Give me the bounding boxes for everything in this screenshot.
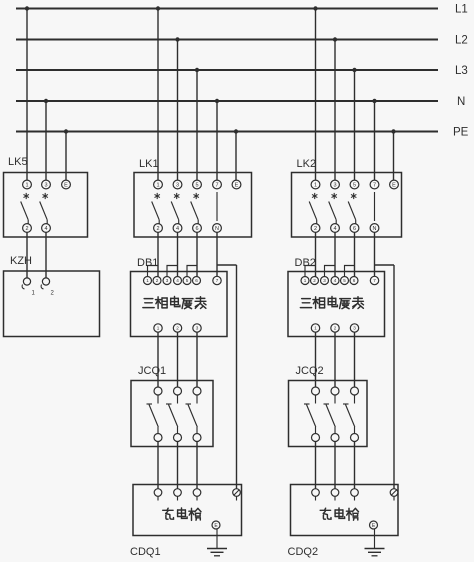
svg-text:7: 7	[216, 278, 219, 283]
svg-text:7: 7	[373, 182, 376, 188]
wire LK5 pin4 to KZH	[45, 232, 47, 278]
svg-text:4: 4	[176, 278, 179, 283]
charging gun CDQ2 label	[288, 546, 319, 558]
breaker LK1 label	[139, 158, 159, 170]
svg-text:N: N	[373, 226, 377, 232]
svg-text:7: 7	[215, 182, 218, 188]
svg-text:5: 5	[186, 278, 189, 283]
junction N/LK5	[44, 99, 48, 103]
wire LK1 pin4 to DB1	[177, 232, 179, 277]
svg-text:3: 3	[44, 182, 47, 188]
wire JCQ2 to CDQ2	[315, 442, 317, 489]
svg-text:6: 6	[353, 226, 356, 232]
wire PE to LK2	[393, 132, 395, 181]
charging gun CDQ1 label	[130, 546, 161, 558]
svg-text:2: 2	[25, 226, 28, 232]
controller KZH	[4, 271, 100, 337]
junction PE/LK2	[391, 129, 395, 133]
wire N to LK5 pin3	[45, 101, 47, 181]
meter DB2	[288, 266, 385, 337]
wire LK2 bypass to CDQ2 PE terminal	[375, 265, 395, 489]
net label L3	[455, 65, 468, 77]
svg-text:L3: L3	[455, 65, 468, 77]
svg-text:KZH: KZH	[10, 255, 32, 267]
breaker LK2 label	[297, 158, 317, 170]
wire LK2 pin2 to DB2	[315, 232, 317, 277]
svg-text:2: 2	[176, 326, 179, 331]
junction L2/LK2	[333, 37, 337, 41]
wire PE to LK5 pinE	[65, 132, 67, 181]
contactor JCQ1 label	[138, 365, 166, 377]
wire LK1 bypass to CDQ1 PE terminal	[217, 265, 237, 489]
svg-text:N: N	[215, 226, 219, 232]
bus PE	[16, 131, 438, 133]
svg-text:4: 4	[44, 226, 47, 232]
svg-text:CDQ1: CDQ1	[130, 546, 161, 558]
junction N/LK1	[215, 99, 219, 103]
svg-text:3: 3	[176, 182, 179, 188]
wire LK5 pin2 to KZH	[26, 232, 28, 278]
wire LK1 pin6 to DB1	[196, 232, 198, 277]
wire PE to LK1	[235, 132, 237, 181]
svg-text:1: 1	[157, 326, 160, 331]
wire JCQ1 to CDQ1	[196, 442, 198, 489]
wire L3 to LK1	[196, 70, 198, 181]
svg-text:E: E	[392, 182, 396, 188]
contactor JCQ1	[131, 381, 213, 447]
svg-text:3: 3	[353, 326, 356, 331]
bus N	[16, 100, 438, 102]
svg-text:E: E	[235, 182, 239, 188]
breaker LK5 label	[8, 156, 28, 168]
svg-text:5: 5	[353, 182, 356, 188]
svg-text:1: 1	[146, 278, 149, 283]
junction L2/LK1	[175, 37, 179, 41]
svg-text:1: 1	[304, 278, 307, 283]
wire L1 to LK5 pin1	[26, 9, 28, 181]
svg-text:N: N	[457, 96, 465, 108]
wire L3 to LK2	[354, 70, 356, 181]
breaker LK1	[134, 173, 252, 238]
svg-text:LK1: LK1	[139, 158, 159, 170]
svg-text:1: 1	[314, 182, 317, 188]
wire LK2 pin6 to DB2	[354, 232, 356, 277]
svg-text:L2: L2	[455, 35, 468, 47]
svg-text:JCQ1: JCQ1	[138, 365, 166, 377]
wire LK2 pin4 to DB2	[334, 232, 336, 277]
meter DB1	[131, 266, 228, 337]
svg-text:2: 2	[334, 326, 337, 331]
junction L1/LK5	[25, 6, 29, 10]
wire DB1 to JCQ1	[177, 332, 179, 387]
junction L1/LK2	[313, 6, 317, 10]
svg-text:5: 5	[195, 182, 198, 188]
wire LK2 pinN to DB2	[374, 232, 376, 277]
svg-text:2: 2	[156, 226, 159, 232]
svg-text:2: 2	[156, 278, 159, 283]
svg-text:4: 4	[176, 226, 179, 232]
contactor JCQ2	[289, 381, 368, 447]
net label N	[457, 96, 465, 108]
junction L3/LK1	[195, 68, 199, 72]
junction L3/LK2	[352, 68, 356, 72]
svg-text:4: 4	[334, 278, 337, 283]
wire JCQ2 to CDQ2	[334, 442, 336, 489]
junction PE/LK1	[234, 129, 238, 133]
svg-text:L1: L1	[455, 4, 468, 16]
svg-text:2: 2	[314, 226, 317, 232]
svg-text:7: 7	[373, 278, 376, 283]
junction PE/LK5	[64, 129, 68, 133]
svg-text:LK5: LK5	[8, 156, 28, 168]
bus L1	[16, 8, 438, 10]
wire DB2 to JCQ2	[315, 332, 317, 387]
wire LK1 pin2 to DB1	[157, 232, 159, 277]
svg-text:1: 1	[25, 182, 28, 188]
wire LK1 pinN to DB1	[216, 232, 218, 277]
wire DB2 to JCQ2	[354, 332, 356, 387]
svg-text:LK2: LK2	[297, 158, 317, 170]
junction N/LK2	[372, 99, 376, 103]
svg-text:5: 5	[343, 278, 346, 283]
svg-text:1: 1	[314, 326, 317, 331]
svg-text:E: E	[64, 182, 68, 188]
svg-text:3: 3	[196, 326, 199, 331]
svg-text:6: 6	[195, 278, 198, 283]
svg-text:4: 4	[333, 226, 336, 232]
svg-text:3: 3	[166, 278, 169, 283]
svg-text:3: 3	[333, 182, 336, 188]
meter DB1 label	[137, 257, 158, 269]
bus L2	[16, 39, 438, 41]
svg-text:CDQ2: CDQ2	[288, 546, 319, 558]
wire JCQ1 to CDQ1	[177, 442, 179, 489]
svg-text:3: 3	[323, 278, 326, 283]
svg-text:2: 2	[313, 278, 316, 283]
wire L1 to LK1	[157, 9, 159, 181]
net label L1	[455, 4, 468, 16]
meter DB2 label	[295, 257, 316, 269]
net label L2	[455, 35, 468, 47]
bus L3	[16, 69, 438, 71]
controller KZH label	[10, 255, 32, 267]
wire DB1 to JCQ1	[157, 332, 159, 387]
wire DB2 to JCQ2	[334, 332, 336, 387]
svg-text:6: 6	[353, 278, 356, 283]
breaker LK5	[4, 173, 88, 238]
wire N to LK1	[216, 101, 218, 181]
wire N to LK2	[374, 101, 376, 181]
wire DB1 to JCQ1	[196, 332, 198, 387]
wire L2 to LK1	[177, 40, 179, 181]
wire L1 to LK2	[315, 9, 317, 181]
wire JCQ1 to CDQ1	[157, 442, 159, 489]
charging gun CDQ1	[133, 485, 242, 536]
ground of CDQ2	[365, 530, 385, 556]
svg-text:JCQ2: JCQ2	[296, 365, 324, 377]
charging gun CDQ2	[291, 485, 399, 536]
contactor JCQ2 label	[296, 365, 324, 377]
svg-text:1: 1	[156, 182, 159, 188]
net label PE	[453, 127, 469, 139]
wire L2 to LK2	[334, 40, 336, 181]
breaker LK2	[292, 173, 402, 238]
junction L1/LK1	[156, 6, 160, 10]
svg-text:PE: PE	[453, 127, 469, 139]
ground of CDQ1	[207, 530, 227, 556]
svg-text:6: 6	[195, 226, 198, 232]
wire JCQ2 to CDQ2	[354, 442, 356, 489]
